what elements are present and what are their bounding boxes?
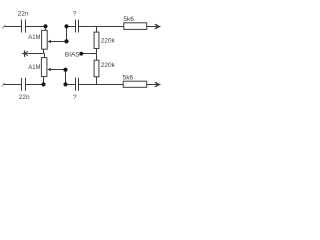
svg-text:220k: 220k — [101, 62, 116, 69]
svg-text:?: ? — [73, 94, 77, 101]
svg-text:5k6: 5k6 — [123, 16, 134, 23]
svg-text:220k: 220k — [101, 38, 116, 45]
svg-text:?: ? — [73, 10, 77, 17]
svg-text:5k6: 5k6 — [123, 74, 134, 81]
svg-text:22n: 22n — [18, 11, 29, 18]
svg-text:22n: 22n — [19, 94, 30, 101]
svg-text:BIAS: BIAS — [65, 52, 80, 59]
svg-text:A1M: A1M — [28, 65, 40, 71]
svg-text:A1M: A1M — [28, 35, 40, 41]
